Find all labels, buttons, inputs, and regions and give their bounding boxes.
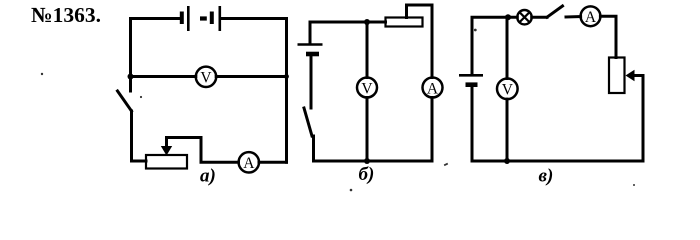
battery GB (circuit a) (182, 6, 220, 31)
battery GB (circuit b) (298, 45, 323, 55)
wire: circuit c switch to ammeter (566, 15, 581, 19)
wire: circuit a right side (285, 19, 288, 163)
ammeter A (circuit c) (581, 6, 601, 26)
svg-text:б): б) (359, 164, 375, 185)
svg-text:в): в) (539, 166, 554, 187)
svg-text:V: V (361, 80, 373, 97)
wire: circuit b voltmeter branch top (366, 22, 369, 78)
node: junction b-bottom (364, 158, 370, 164)
node: junction b-top (364, 19, 370, 25)
wire: circuit b voltmeter branch bottom (366, 98, 369, 162)
wire: circuit c top-left (472, 17, 517, 74)
svg-text:V: V (200, 70, 212, 87)
wire: circuit a voltmeter branch left (131, 75, 196, 78)
svg-text:№1363.: №1363. (31, 3, 101, 27)
svg-text:V: V (502, 82, 514, 99)
node: junction c-bottom (504, 158, 510, 164)
ammeter A (circuit b) (423, 78, 443, 98)
svg-text:A: A (243, 155, 255, 172)
switch S (circuit a) (118, 91, 132, 111)
voltmeter V (circuit c) (497, 79, 518, 100)
battery GB (circuit c) (459, 75, 483, 84)
wire: circuit a slider to ammeter (167, 138, 239, 163)
node: junction a-left (128, 74, 134, 80)
wire: circuit a lower-left (132, 111, 147, 161)
wire: circuit b top (310, 22, 386, 44)
wire: circuit a voltmeter branch right (216, 75, 286, 78)
wire: circuit b left below battery (310, 56, 313, 108)
wire: circuit a top-right segment (221, 17, 287, 20)
svg-text:A: A (427, 80, 439, 97)
wire: circuit c voltmeter branch top (506, 17, 509, 78)
rheostat R (circuit c) (609, 58, 643, 94)
switch S (circuit c) (547, 6, 563, 17)
voltmeter V (circuit b) (357, 78, 377, 98)
rheostat R (circuit a) (146, 138, 187, 169)
wire: circuit c left below battery (471, 87, 474, 161)
svg-text:A: A (585, 9, 597, 26)
wire: circuit b bottom-left (314, 136, 433, 161)
ammeter A (circuit a) (239, 152, 259, 172)
wire: circuit c voltmeter branch bottom (506, 99, 509, 161)
node: junction c-top (505, 14, 511, 20)
wire: circuit c ammeter to rheostat (600, 16, 616, 57)
wire: circuit c lamp to switch (532, 16, 547, 19)
wire: scan speckles (decorative) (41, 29, 635, 192)
switch S (circuit b) (304, 108, 312, 136)
svg-text:а): а) (200, 166, 216, 187)
wire: circuit a bottom-right (259, 161, 287, 164)
voltmeter V (circuit a) (196, 67, 216, 87)
node: junction a-right (284, 74, 289, 79)
wire: circuit a top-left segment (131, 19, 181, 92)
wire: circuit c slider down and bottom (472, 76, 643, 162)
resistor R (circuit b) (386, 18, 423, 27)
wire: circuit b ammeter branch bottom (431, 98, 434, 162)
wire: circuit b slider over resistor (407, 5, 433, 78)
lamp HL (circuit c) (517, 10, 531, 24)
